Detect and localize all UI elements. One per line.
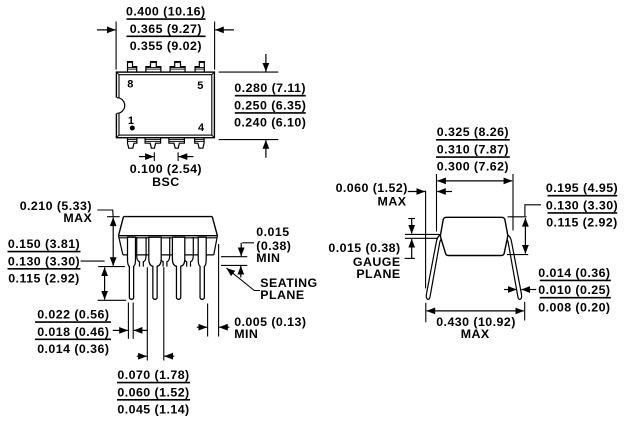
lead width extension line right	[132, 303, 134, 339]
body width arrow down	[265, 54, 267, 72]
gauge plane arrow up	[405, 239, 415, 258]
svg-text:0.010 (0.25): 0.010 (0.25)	[538, 283, 610, 297]
svg-text:0.018 (0.46): 0.018 (0.46)	[37, 325, 109, 339]
dimension stack 0.195/0.130/0.115 (lead length from body)	[546, 181, 618, 230]
0.210 dimension arrow	[112, 218, 114, 266]
body width extension line bottom	[219, 139, 279, 141]
dimension stack 0.014/0.010/0.008 (lead thickness)	[538, 266, 611, 315]
side view front lead 4	[198, 237, 206, 299]
side view package body	[119, 217, 218, 255]
svg-text:PLANE: PLANE	[356, 267, 400, 281]
lead thickness arrow right	[522, 289, 537, 291]
pin-1 index dot	[130, 126, 135, 131]
side view back-row lead 2	[160, 237, 169, 267]
0.430 dimension arrow	[427, 310, 524, 312]
body top tick	[107, 216, 120, 218]
top view pin 3 lead	[169, 138, 185, 149]
0.210 leader	[97, 210, 113, 217]
side view back-row lead 1	[137, 237, 146, 267]
svg-text:0.250 (6.35): 0.250 (6.35)	[234, 98, 306, 112]
0.430 tick right	[524, 302, 526, 321]
seating plane tick (left)	[98, 266, 125, 268]
row spacing extension line right	[512, 174, 514, 231]
svg-text:PLANE: PLANE	[260, 288, 304, 302]
svg-text:0.060 (1.52): 0.060 (1.52)	[117, 385, 189, 399]
svg-text:0.045 (1.14): 0.045 (1.14)	[117, 403, 189, 417]
pin pitch arrow left	[139, 156, 154, 158]
svg-text:0.240 (6.10): 0.240 (6.10)	[234, 116, 306, 130]
side view front lead 3	[172, 237, 184, 299]
dimension stack 0.325/0.310/0.300 (row spacing)	[436, 125, 510, 174]
body top extension tick (right)	[508, 216, 527, 218]
side view front lead 1	[128, 237, 136, 299]
row spacing extension line left	[436, 174, 438, 232]
svg-text:0.400 (10.16): 0.400 (10.16)	[126, 5, 206, 19]
0.195 dimension arrow	[524, 218, 526, 254]
svg-text:0.070 (1.78): 0.070 (1.78)	[117, 368, 189, 382]
0.005 extension line left	[207, 304, 209, 337]
svg-text:0.100 (2.54): 0.100 (2.54)	[130, 162, 202, 176]
svg-text:0.280 (7.11): 0.280 (7.11)	[234, 81, 306, 95]
pin pitch tick right	[177, 152, 179, 161]
svg-text:0.015: 0.015	[256, 225, 289, 239]
lead width arrow left	[113, 329, 128, 331]
dimension stack 0.022/0.018/0.014 (lead width)	[35, 308, 111, 357]
shoulder width arrow right	[164, 355, 174, 357]
svg-text:0.150 (3.81): 0.150 (3.81)	[8, 237, 80, 251]
lead plane extension line	[425, 191, 427, 289]
end view package body	[441, 217, 508, 255]
svg-text:0.115 (2.92): 0.115 (2.92)	[546, 216, 618, 230]
svg-text:0.325 (8.26): 0.325 (8.26)	[437, 125, 509, 139]
gauge plane lines	[405, 234, 444, 238]
svg-text:MAX: MAX	[378, 194, 407, 208]
seating plane line (right)	[221, 264, 247, 266]
svg-text:0.014 (0.36): 0.014 (0.36)	[37, 342, 109, 356]
0.005 arrow left	[197, 326, 207, 328]
SEATING PLANE leader	[227, 268, 261, 290]
standoff line	[221, 256, 247, 258]
top view pin 1 lead (bottom-left)	[128, 138, 137, 149]
svg-text:MIN: MIN	[234, 327, 258, 341]
top view pin 6 lead	[170, 62, 185, 73]
shoulder width extension line right	[163, 267, 165, 360]
shoulder width extension line left	[146, 267, 148, 360]
body length arrow left	[97, 29, 116, 31]
0.015 connector	[242, 242, 254, 244]
pin pitch arrow right	[179, 156, 194, 158]
svg-text:MAX: MAX	[63, 211, 92, 225]
lead tip tick (left)	[98, 299, 127, 301]
svg-text:4: 4	[198, 122, 205, 134]
svg-text:0.015 (0.38): 0.015 (0.38)	[328, 241, 400, 255]
svg-text:0.014 (0.36): 0.014 (0.36)	[538, 266, 610, 280]
top view package body (double outline)	[116, 72, 214, 138]
body width arrow up	[265, 140, 267, 158]
dimension stack 0.280/0.250/0.240 (body width)	[234, 81, 306, 130]
shoulder width arrow left	[137, 355, 147, 357]
0.015 arrow up	[240, 266, 242, 278]
0.430 tick left	[425, 303, 427, 323]
top view pin 2 lead	[145, 138, 161, 149]
body length extension line right	[214, 22, 216, 70]
svg-text:0.060 (1.52): 0.060 (1.52)	[336, 181, 408, 195]
0.060 arrow right	[437, 191, 452, 193]
0.005 arrow right	[219, 326, 229, 328]
svg-text:0.008 (0.20): 0.008 (0.20)	[538, 300, 610, 314]
body width extension line top	[219, 71, 279, 73]
svg-text:0.022 (0.56): 0.022 (0.56)	[37, 308, 109, 322]
body bottom extension tick (right)	[507, 254, 528, 256]
svg-text:MIN: MIN	[256, 251, 280, 265]
svg-text:0.115 (2.92): 0.115 (2.92)	[8, 272, 80, 286]
pin-1 index notch	[115, 98, 124, 114]
top view pin 4 lead (bottom-right)	[195, 138, 204, 149]
lead width extension line left	[127, 303, 129, 339]
row spacing dimension arrow	[437, 180, 512, 182]
0.060 arrow left	[408, 191, 425, 193]
dimension stack 0.150/0.130/0.115 (lead length)	[8, 237, 81, 286]
pin pitch tick left	[153, 152, 155, 161]
svg-text:0.130 (3.30): 0.130 (3.30)	[546, 198, 618, 212]
lead thickness arrow left	[504, 289, 517, 291]
0.130 dimension arrow	[104, 267, 106, 299]
0.130 leader	[81, 260, 105, 262]
0.005 extension line right	[218, 244, 220, 337]
svg-text:0.130 (3.30): 0.130 (3.30)	[8, 254, 80, 268]
gauge plane top tick	[408, 218, 415, 220]
svg-text:0.310 (7.87): 0.310 (7.87)	[437, 142, 509, 156]
side view front lead 2	[149, 237, 161, 299]
0.015 arrow down	[240, 243, 242, 256]
0.130 leader (end view)	[525, 205, 541, 216]
body length extension line left	[115, 22, 117, 70]
svg-text:0.195 (4.95): 0.195 (4.95)	[546, 181, 618, 195]
svg-text:5: 5	[197, 80, 204, 92]
svg-text:0.300 (7.62): 0.300 (7.62)	[437, 160, 509, 174]
svg-text:MAX: MAX	[461, 327, 490, 341]
lead width arrow right	[134, 329, 148, 331]
top view pin 8 lead (top-left)	[128, 62, 137, 73]
gauge plane arrow down	[411, 219, 413, 234]
top view pin 7 lead	[146, 62, 161, 73]
svg-text:8: 8	[127, 79, 134, 91]
body length arrow right	[215, 29, 234, 31]
svg-text:1: 1	[128, 115, 135, 127]
end view left lead	[426, 234, 444, 299]
end view right lead	[503, 234, 521, 299]
dimension stack 0.070/0.060/0.045 (shoulder width)	[117, 368, 190, 417]
top view pin 5 lead (top-right)	[195, 62, 204, 73]
svg-text:BSC: BSC	[152, 175, 180, 189]
svg-text:0.365 (9.27): 0.365 (9.27)	[130, 22, 202, 36]
dimension stack 0.400/0.365/0.355 (body length)	[126, 5, 206, 54]
side view back-row lead 3	[184, 237, 193, 267]
svg-text:0.355 (9.02): 0.355 (9.02)	[130, 39, 202, 53]
